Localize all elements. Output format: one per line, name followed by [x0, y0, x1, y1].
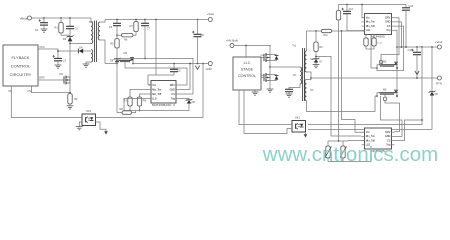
svg-text:R2: R2 [74, 97, 78, 101]
wire RTN rail [311, 77, 438, 79]
watermark [262, 143, 438, 166]
wire OK1 cathode ground [76, 122, 83, 130]
svg-text:GND: GND [385, 135, 391, 138]
wire potentiometer bottoms [328, 155, 371, 162]
wire NCP4305 VCC feed [148, 19, 157, 85]
ground below M4 [267, 89, 274, 92]
wire output rail +Vout llc [397, 46, 438, 48]
wire M4 source to ground [269, 81, 271, 90]
wire HV to LLC box [245, 46, 247, 58]
resistor R15 bias [336, 5, 340, 142]
capacitor C15 [408, 46, 421, 79]
wire VBulk top rail [32, 17, 92, 19]
svg-text:D6: D6 [192, 100, 196, 104]
svg-text:DRV: DRV [170, 84, 175, 87]
wire U5 Vcc feed [342, 31, 365, 132]
svg-text:LLD: LLD [152, 97, 157, 100]
wire bias rail top [339, 4, 407, 6]
wire U4 CS bus [377, 26, 404, 70]
wire potentiometer tops [328, 140, 365, 142]
capacitor C14 [342, 5, 362, 31]
wire clamp to primary [70, 43, 91, 45]
capacitor C1 [35, 17, 48, 32]
wire U5 CS bus [381, 96, 403, 136]
svg-text:OK1: OK1 [86, 109, 92, 113]
ground below LLC box [252, 90, 259, 95]
resistor R2 [68, 93, 78, 106]
svg-text:+Vout: +Vout [435, 40, 443, 44]
zener diode D8 [429, 91, 439, 130]
llc controller U3 box [233, 57, 261, 90]
svg-text:D4: D4 [79, 45, 83, 49]
zener diode D3 [63, 35, 74, 44]
svg-text:R1: R1 [54, 25, 58, 29]
svg-text:C3: C3 [63, 58, 67, 62]
svg-text:LLC: LLC [244, 61, 251, 65]
resistor R13 min ton [364, 35, 368, 50]
resistor R16 gate [379, 60, 382, 63]
wire Trig to D6 [179, 99, 189, 100]
svg-text:Min_Toff: Min_Toff [152, 93, 161, 96]
svg-text:Min_Ton: Min_Ton [366, 21, 376, 24]
ground below C3 [55, 65, 62, 68]
svg-text:CS: CS [387, 139, 391, 142]
wire drain sense vertical [116, 64, 118, 113]
zener diode D5 [110, 58, 121, 64]
wire +Vout rail [105, 19, 208, 21]
wire Min_Ton to R3 [130, 90, 148, 98]
capacitor C3 [53, 55, 67, 65]
wire U4 DRV bus [381, 18, 399, 66]
wire feedback lower with zener [431, 46, 433, 91]
wire LLC box to OK2 lower [244, 90, 292, 134]
ground below D7 [313, 65, 320, 68]
wire CS sense [32, 86, 71, 93]
svg-text:R_min: R_min [377, 43, 383, 45]
transistor M5 upper SR [371, 31, 398, 69]
svg-text:VCC: VCC [39, 45, 45, 49]
resistor R7 [129, 19, 138, 36]
ground arrow below OK2 [304, 132, 308, 138]
ground arrow at GND rail [195, 63, 199, 70]
capacitor C2 [66, 17, 78, 35]
svg-text:C8: C8 [200, 33, 204, 37]
svg-text:DRV: DRV [39, 76, 45, 80]
wire U4 Trig bus [395, 30, 398, 47]
capacitor Cr resonant [285, 84, 300, 97]
svg-text:Min_Toff: Min_Toff [366, 139, 375, 142]
sync rectifier driver U5 NCP4305 lower [362, 128, 395, 153]
svg-text:C15: C15 [408, 49, 413, 52]
resistor R11 [322, 29, 332, 37]
wire LLD return rail [124, 99, 189, 111]
flyback controller U1 box [3, 45, 45, 86]
svg-text:OK1: OK1 [295, 116, 301, 120]
svg-text:C2: C2 [75, 27, 79, 31]
node GND terminal left section [205, 62, 212, 71]
capacitor C8 [192, 20, 204, 64]
svg-text:RTN: RTN [436, 82, 442, 86]
wire U4 GND bus [395, 22, 403, 48]
ground below R2 [67, 106, 74, 109]
wire feedback upper [308, 46, 423, 124]
wire HV rail [234, 45, 271, 47]
transformer TP1 [89, 18, 106, 64]
wire M1 drain [69, 44, 71, 76]
svg-text:NCP4305A/D/..C: NCP4305A/D/..C [152, 103, 176, 107]
svg-text:GND: GND [205, 67, 211, 71]
svg-text:CS: CS [28, 89, 32, 93]
wire bias to U4 Vcc [362, 5, 365, 18]
wire DRV to M1 gate [38, 79, 64, 81]
svg-text:Min_Toff: Min_Toff [366, 25, 375, 28]
diode D4 auxiliary [58, 45, 91, 53]
wire OK1 emitter to secondary gnd arrow [96, 122, 108, 135]
svg-text:Min_Ton: Min_Ton [366, 135, 376, 138]
capacitor C7 [141, 19, 151, 60]
wire CS bus [117, 59, 193, 95]
svg-text:R4: R4 [143, 99, 147, 103]
svg-text:M2: M2 [124, 51, 128, 55]
wire OK1 collector long return [96, 63, 204, 118]
resistor R9 [314, 31, 323, 59]
wire LLC box to OK2 upper [239, 90, 292, 125]
svg-text:LLD: LLD [366, 29, 371, 32]
svg-text:DRV: DRV [385, 17, 390, 20]
wire M4 drain from midpoint [269, 67, 271, 75]
svg-text:C13: C13 [409, 5, 414, 8]
resistor R4 [137, 97, 146, 111]
svg-text:C14: C14 [349, 8, 354, 11]
svg-text:C9: C9 [177, 68, 181, 72]
zener diode D7 [313, 58, 324, 65]
sync rectifier driver U4 NCP4305 upper [362, 14, 395, 39]
optocoupler OK2 [292, 116, 306, 132]
wire M3 source to midpoint [269, 61, 271, 68]
transistor M6 lower SR [375, 89, 398, 97]
resistor R8 [117, 107, 136, 115]
wire secondary top rail llc [307, 30, 372, 32]
svg-text:CONTROL: CONTROL [238, 74, 256, 78]
svg-text:www.cntronics.com: www.cntronics.com [262, 143, 438, 166]
wire Min_Toff to R4 [140, 94, 149, 97]
svg-text:STAGE: STAGE [241, 68, 254, 72]
wire GND pin to rail [179, 63, 191, 90]
svg-text:C7: C7 [147, 27, 151, 31]
transistor M4 low side [264, 73, 278, 82]
wire midpoint to primary [270, 66, 300, 68]
optocoupler OK1 [82, 109, 96, 125]
svg-text:Min_Ton: Min_Ton [152, 88, 162, 91]
svg-text:VBulk: VBulk [20, 16, 28, 20]
svg-text:D5: D5 [110, 59, 114, 63]
svg-text:C4: C4 [109, 25, 113, 29]
resistor R6 [117, 34, 136, 42]
wire M3 drain to rail [269, 46, 271, 55]
wire M3 gate [260, 55, 264, 58]
wire D8 to optocoupler [308, 129, 432, 131]
pin CS label [28, 89, 32, 93]
svg-text:CIRCUITRY: CIRCUITRY [10, 72, 32, 77]
svg-text:FLYBACK: FLYBACK [12, 55, 30, 60]
svg-text:DRV: DRV [385, 131, 390, 134]
transistor M2 synchronous rectifier [116, 51, 134, 64]
wire secondary to SR fet [105, 63, 117, 65]
svg-text:C1: C1 [35, 28, 39, 32]
potentiometer R18 [340, 141, 347, 162]
wire secondary GND rail [133, 63, 208, 65]
svg-text:GND: GND [169, 88, 175, 91]
wire SR output vertical [396, 46, 398, 97]
wire VCC from controller [38, 49, 59, 58]
wire M4 gate [260, 75, 264, 78]
wire M5 gate [381, 59, 383, 67]
wire DRV bus [179, 68, 187, 85]
resistor R1 [54, 17, 63, 35]
ground below C1 [41, 29, 48, 32]
svg-text:D3: D3 [63, 37, 67, 41]
svg-text:+HV Bulk: +HV Bulk [226, 39, 238, 43]
wire N3 bottom to SR [307, 96, 376, 112]
svg-text:CS: CS [171, 93, 175, 96]
resistor R14 min toff [366, 35, 383, 50]
sync rectifier driver U2 NCP4305 [148, 81, 179, 108]
svg-text:Trig: Trig [171, 97, 176, 100]
wire R1-C2 tie [61, 34, 70, 36]
resistor R5 [110, 35, 119, 58]
pin FB label [9, 89, 13, 93]
svg-text:M1: M1 [59, 72, 63, 76]
transformer TR1 [292, 43, 314, 101]
transistor M3 high side [264, 53, 278, 62]
svg-text:R11: R11 [324, 34, 329, 37]
ground arrow below C15 [415, 71, 419, 75]
svg-text:+Vout: +Vout [207, 12, 215, 16]
resistor R17 gate [383, 97, 386, 100]
svg-text:R7: R7 [129, 24, 133, 28]
wire U5 Trig bus [395, 119, 423, 140]
node +Vout terminal left section [197, 12, 215, 21]
svg-text:Trig: Trig [386, 29, 391, 32]
svg-text:CONTROL: CONTROL [11, 64, 31, 69]
capacitor C9 [156, 63, 181, 75]
zener diode D6 [186, 99, 196, 111]
capacitor C13 [402, 5, 414, 48]
potentiometer R17 [325, 141, 332, 162]
wire M1 drain stub [69, 75, 71, 77]
resistor R3 [123, 97, 132, 111]
wire N2 top to rail [306, 31, 308, 51]
wire aux winding return and ground [83, 62, 91, 67]
wire FB to optocoupler [11, 86, 82, 118]
transistor M1 [59, 72, 70, 84]
wire M2 gate [125, 62, 187, 68]
node +Vout terminal llc [435, 40, 443, 49]
wire M6 gate bus [385, 94, 400, 131]
svg-text:R5: R5 [110, 42, 114, 46]
wire center tap [307, 72, 312, 80]
svg-text:GND: GND [385, 21, 391, 24]
svg-text:Tr1: Tr1 [292, 43, 296, 47]
wire M1 source to R2 [69, 83, 71, 93]
node VBulk input terminal [20, 16, 32, 20]
svg-text:R6: R6 [124, 38, 128, 42]
capacitor C4 [109, 19, 121, 36]
node +HV Bulk terminal [226, 39, 238, 48]
wire R9 D7 node to lower driver [315, 56, 361, 136]
svg-text:R8: R8 [120, 107, 124, 111]
node RTN terminal [436, 76, 442, 86]
svg-text:CS: CS [387, 25, 391, 28]
